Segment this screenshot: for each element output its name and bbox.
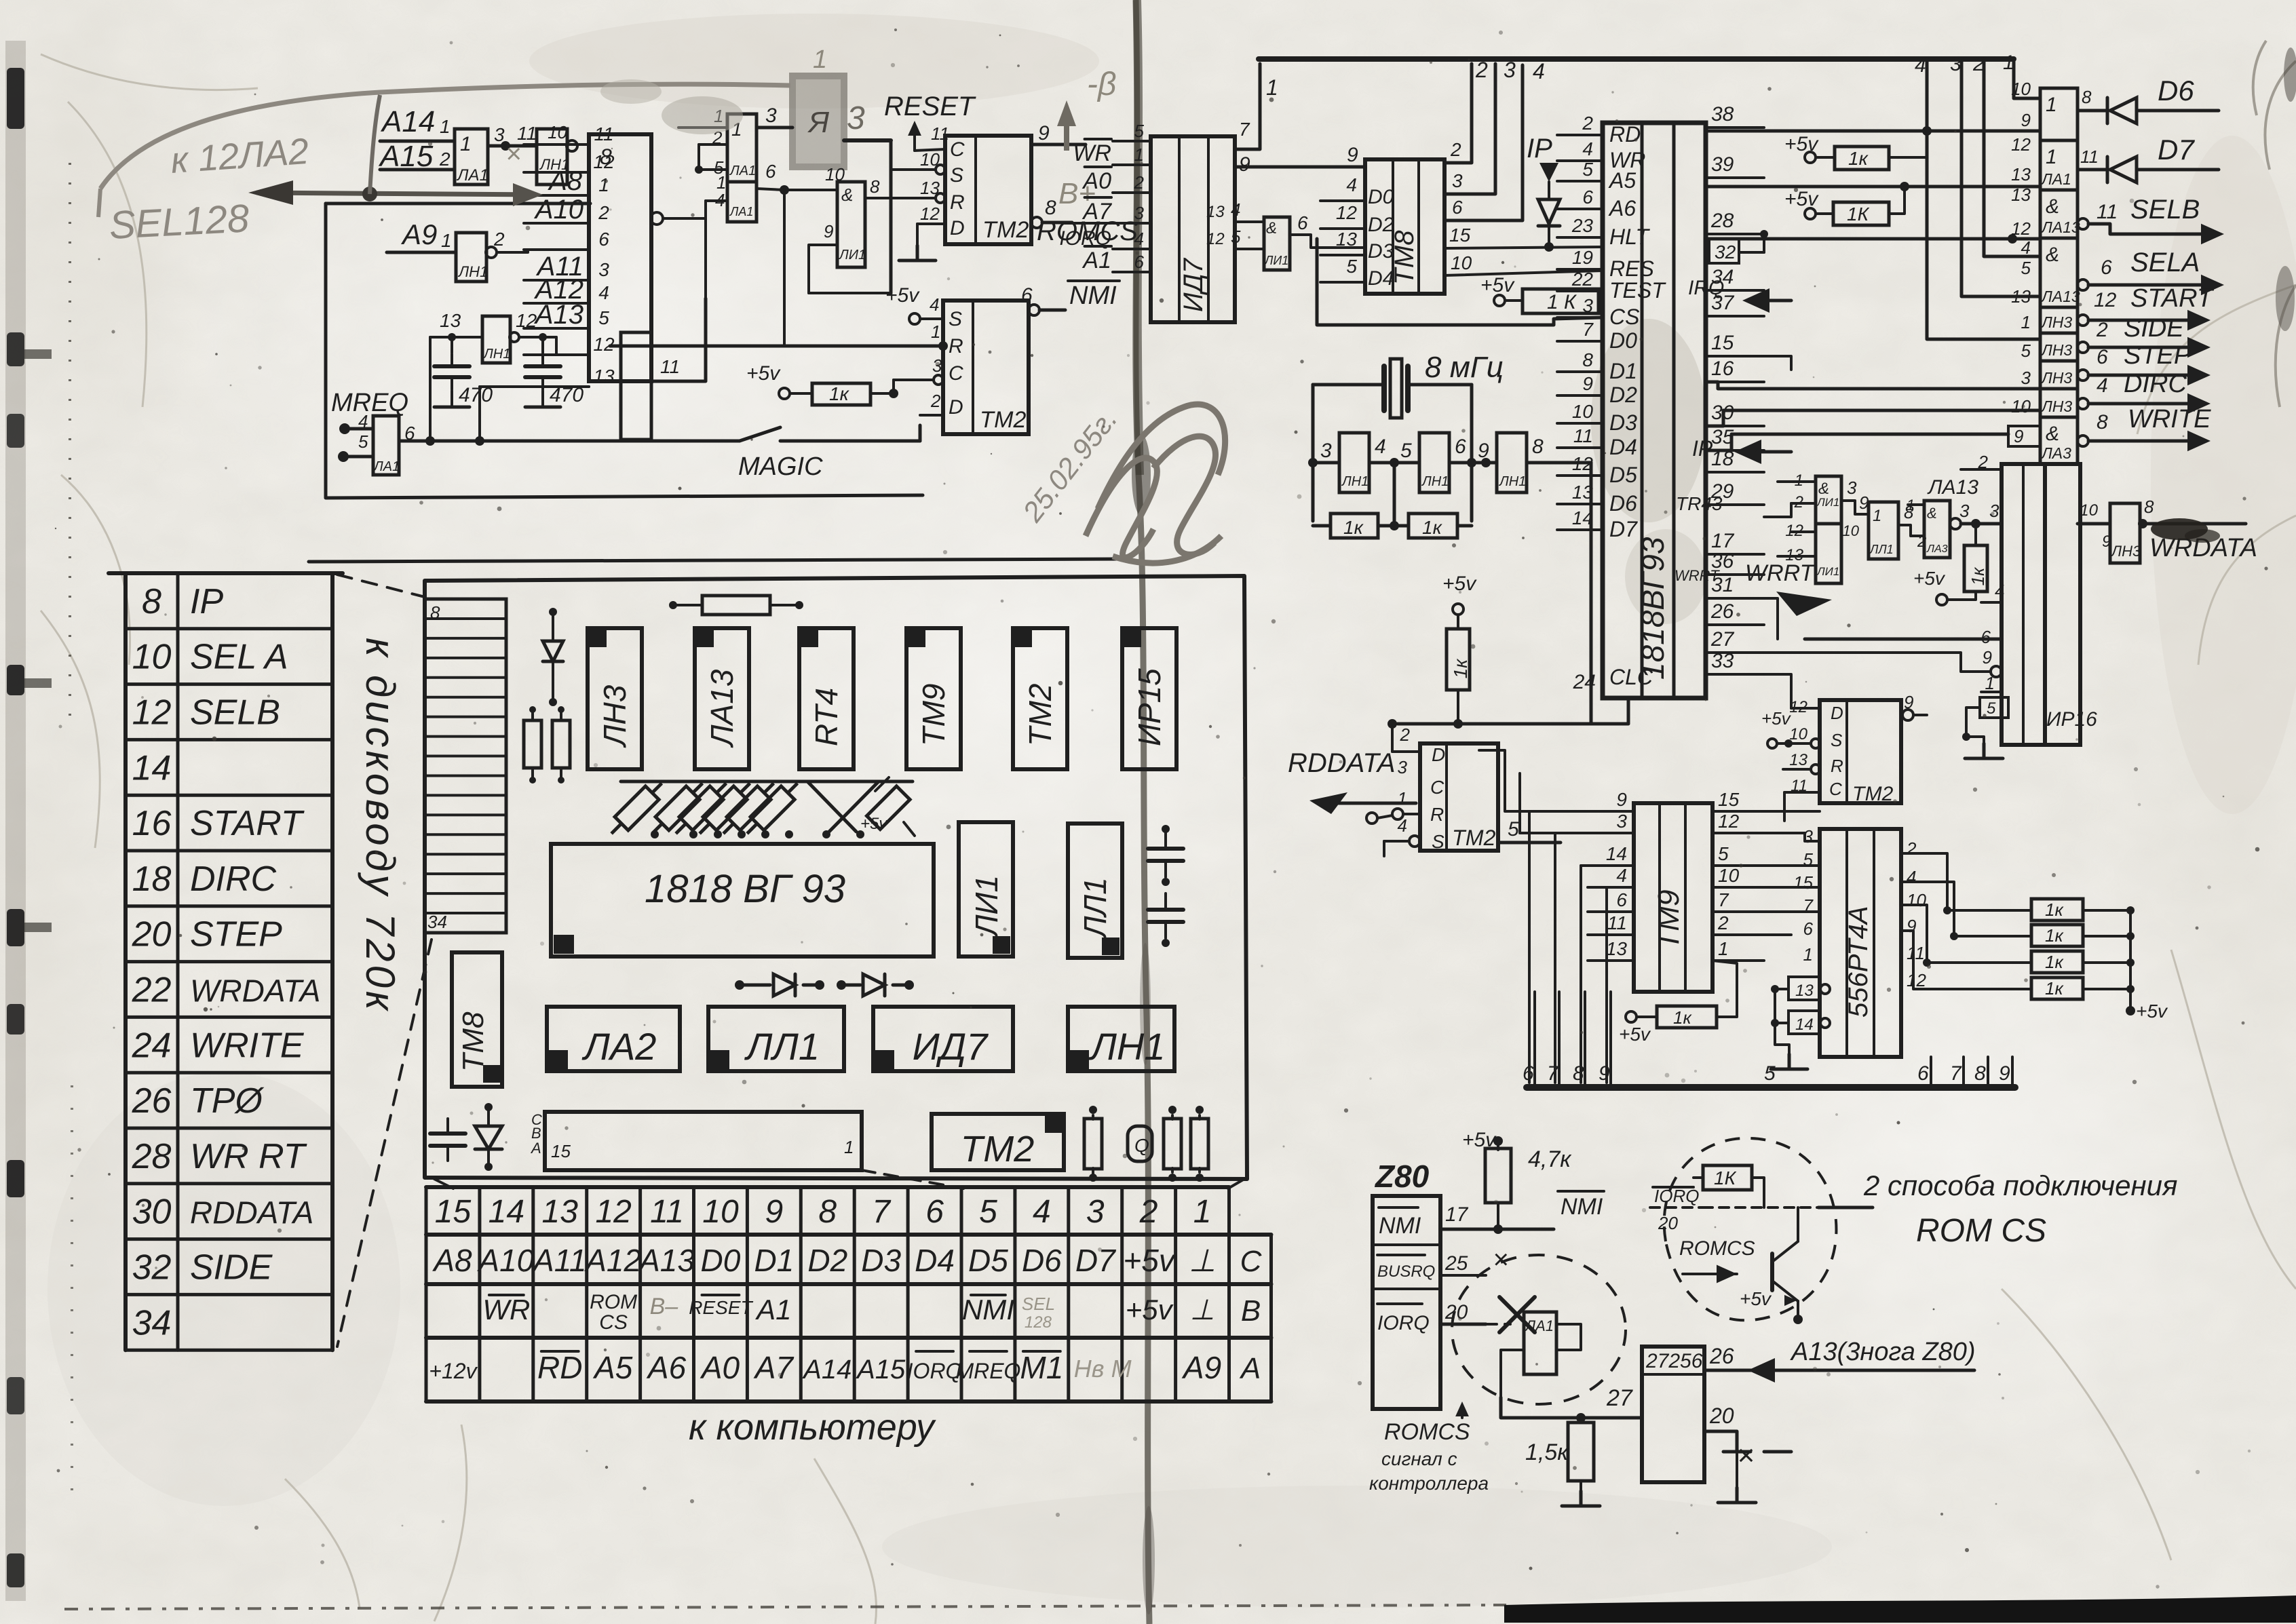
svg-text:ЛА3: ЛА3 xyxy=(2040,444,2071,462)
svg-text:A7: A7 xyxy=(753,1350,795,1385)
PROM 556RT4A xyxy=(1820,829,1901,1057)
NMI TM2 flip-flop xyxy=(943,301,1029,434)
svg-text:13: 13 xyxy=(1336,229,1358,250)
svg-text:1к: 1к xyxy=(1422,517,1443,538)
boxed 32 pin xyxy=(1709,239,1739,263)
PCB chip row 1 xyxy=(588,628,642,769)
svg-text:ЛН1: ЛН1 xyxy=(1341,474,1369,489)
svg-text:14: 14 xyxy=(1795,1016,1814,1034)
wires VG93 right pins wrap to IR16 xyxy=(1764,356,1791,370)
svg-text:4: 4 xyxy=(598,282,609,303)
svg-text:2: 2 xyxy=(1134,172,1145,193)
PCB chip TM2 row2 xyxy=(932,1114,1064,1170)
svg-text:1: 1 xyxy=(1873,507,1881,525)
svg-text:A0: A0 xyxy=(700,1350,740,1385)
svg-text:ЛИ1: ЛИ1 xyxy=(838,248,866,263)
svg-text:TR43: TR43 xyxy=(1676,493,1723,514)
svg-text:9: 9 xyxy=(1347,144,1358,166)
svg-text:A10: A10 xyxy=(476,1243,534,1278)
svg-text:8: 8 xyxy=(1582,349,1593,370)
PCB edge connector strip xyxy=(425,599,506,933)
svg-text:Q: Q xyxy=(1134,1135,1149,1156)
svg-text:ТМ2: ТМ2 xyxy=(1452,826,1496,850)
PCB bottom-left capacitor and diode xyxy=(430,1132,465,1136)
svg-text:+5v: +5v xyxy=(1480,274,1515,296)
svg-text:NMI: NMI xyxy=(962,1294,1014,1326)
svg-text:11: 11 xyxy=(1907,943,1925,963)
svg-text:6: 6 xyxy=(1616,889,1627,910)
svg-text:A6: A6 xyxy=(1608,196,1636,220)
svg-text:1К: 1К xyxy=(1714,1167,1737,1188)
output DIRC xyxy=(2078,398,2088,409)
svg-text:WRITE: WRITE xyxy=(2128,405,2211,433)
svg-text:1к: 1к xyxy=(2045,900,2064,920)
svg-text:D2: D2 xyxy=(1368,214,1394,236)
svg-text:33: 33 xyxy=(1711,650,1734,672)
svg-text:4: 4 xyxy=(930,294,939,315)
svg-text:11: 11 xyxy=(1607,912,1627,933)
svg-text:ТМ2: ТМ2 xyxy=(1022,683,1058,746)
svg-text:8 мГц: 8 мГц xyxy=(1425,351,1504,384)
IRQ arrow xyxy=(1742,288,1769,313)
svg-text:6: 6 xyxy=(1452,197,1463,218)
svg-text:6: 6 xyxy=(1803,919,1814,939)
svg-text:ЛА13: ЛА13 xyxy=(1927,476,1978,499)
chip TM8 xyxy=(1365,159,1444,294)
svg-text:A13(3нога Z80): A13(3нога Z80) xyxy=(1790,1338,1976,1366)
svg-text:ROMCS: ROMCS xyxy=(1679,1237,1755,1260)
svg-text:ЛА1: ЛА1 xyxy=(729,163,756,178)
svg-text:1,5к: 1,5к xyxy=(1525,1439,1569,1465)
svg-text:12: 12 xyxy=(1907,970,1926,990)
svg-text:CLC: CLC xyxy=(1609,665,1653,689)
svg-text:STEP: STEP xyxy=(190,915,282,954)
svg-text:15: 15 xyxy=(1718,789,1740,810)
svg-text:10: 10 xyxy=(548,122,567,142)
svg-text:Я: Я xyxy=(807,106,830,139)
svg-text:27256: 27256 xyxy=(1645,1350,1703,1372)
svg-text:D5: D5 xyxy=(1609,463,1637,487)
PCB chip row 2 xyxy=(547,1007,680,1071)
svg-text:ЛН1: ЛН1 xyxy=(1498,474,1526,489)
bottom thick bus xyxy=(1527,1084,2015,1091)
gate LN3 -> WRDATA xyxy=(2110,503,2140,563)
smudged pencil square xyxy=(792,76,844,167)
vertical bus wires 1-4 from top line xyxy=(1927,59,2040,339)
svg-text:ТМ9: ТМ9 xyxy=(1652,890,1685,950)
svg-text:ЛА13: ЛА13 xyxy=(2040,288,2080,305)
svg-text:1к: 1к xyxy=(2045,952,2064,972)
svg-text:IORQ: IORQ xyxy=(907,1359,963,1383)
svg-text:6: 6 xyxy=(2097,346,2108,368)
svg-text:⊥: ⊥ xyxy=(1190,1294,1215,1326)
svg-text:8: 8 xyxy=(142,582,161,621)
svg-text:8: 8 xyxy=(1532,436,1544,458)
svg-text:15: 15 xyxy=(551,1141,571,1161)
svg-text:34: 34 xyxy=(427,912,447,932)
svg-text:3: 3 xyxy=(1616,811,1627,832)
svg-text:к компьютеру: к компьютеру xyxy=(689,1407,936,1448)
pencil signature xyxy=(1086,404,1225,563)
svg-text:A: A xyxy=(1239,1352,1261,1385)
svg-text:9: 9 xyxy=(1904,692,1913,712)
svg-text:A15: A15 xyxy=(856,1355,906,1385)
svg-text:12: 12 xyxy=(920,204,940,224)
svg-text:ЛИ1: ЛИ1 xyxy=(1816,496,1839,509)
svg-text:13: 13 xyxy=(1606,938,1628,959)
svg-text:10: 10 xyxy=(132,638,172,677)
svg-text:5: 5 xyxy=(1231,227,1241,247)
svg-text:SEL128: SEL128 xyxy=(108,196,250,248)
svg-text:3: 3 xyxy=(1504,58,1516,82)
svg-text:+5v: +5v xyxy=(746,362,781,385)
svg-text:13: 13 xyxy=(440,310,461,331)
PCB resistor right of array xyxy=(866,786,910,830)
svg-text:8: 8 xyxy=(2097,411,2108,433)
svg-text:6: 6 xyxy=(1455,436,1466,458)
svg-text:11: 11 xyxy=(594,123,613,144)
svg-text:12: 12 xyxy=(2011,134,2031,155)
svg-text:12: 12 xyxy=(1206,230,1225,248)
svg-text:12: 12 xyxy=(1572,453,1594,474)
svg-text:3: 3 xyxy=(1452,170,1463,191)
PCB chips LI1 LL1 xyxy=(959,822,1013,956)
CLC wire xyxy=(1590,463,1593,724)
1k resistors output pullups xyxy=(2031,899,2083,921)
svg-text:9: 9 xyxy=(1038,122,1050,144)
svg-text:13: 13 xyxy=(593,366,615,387)
TM2 flip-flop (above TM9) xyxy=(1820,700,1901,803)
svg-text:C: C xyxy=(1430,777,1444,798)
TM2 flip-flop (ROMCS) xyxy=(945,136,1031,244)
svg-text:⊥: ⊥ xyxy=(1189,1243,1216,1278)
svg-text:SIDE: SIDE xyxy=(190,1248,273,1287)
svg-text:7: 7 xyxy=(1803,895,1814,916)
svg-text:15: 15 xyxy=(435,1194,472,1230)
svg-text:ЛИ1: ЛИ1 xyxy=(969,875,1004,938)
svg-text:13: 13 xyxy=(1572,482,1594,503)
svg-text:6: 6 xyxy=(404,423,415,444)
svg-text:A14: A14 xyxy=(380,105,435,138)
svg-text:13: 13 xyxy=(1206,203,1225,221)
svg-text:A9: A9 xyxy=(1181,1350,1221,1385)
floppy connector pin table xyxy=(109,571,343,575)
svg-text:A9: A9 xyxy=(400,218,437,250)
svg-text:12: 12 xyxy=(593,151,615,172)
CS wire from LI1 xyxy=(1317,239,1603,325)
svg-text:3: 3 xyxy=(1582,295,1593,316)
svg-text:10: 10 xyxy=(2011,396,2031,417)
svg-text:WR: WR xyxy=(482,1294,530,1326)
svg-text:6: 6 xyxy=(1021,284,1033,307)
svg-text:&: & xyxy=(2046,244,2059,266)
svg-text:B–: B– xyxy=(650,1294,679,1319)
svg-text:ИД7: ИД7 xyxy=(913,1025,989,1068)
center fold crease xyxy=(1136,0,1149,1624)
svg-text:ЛН1: ЛН1 xyxy=(457,263,488,280)
svg-text:+5v: +5v xyxy=(2136,1001,2168,1022)
svg-text:SEL: SEL xyxy=(1022,1294,1055,1314)
svg-text:4: 4 xyxy=(1582,138,1593,159)
svg-text:10: 10 xyxy=(1718,865,1740,886)
svg-text:+5v: +5v xyxy=(885,284,920,307)
svg-text:-β: -β xyxy=(1087,66,1116,102)
svg-text:&: & xyxy=(2046,195,2059,218)
gate LL1 xyxy=(1869,502,1898,559)
svg-text:ЛН3: ЛН3 xyxy=(2040,398,2072,415)
svg-text:7: 7 xyxy=(1547,1062,1559,1085)
svg-text:MREQ: MREQ xyxy=(955,1359,1020,1383)
svg-text:ROMCS: ROMCS xyxy=(1384,1419,1470,1445)
ROM 27256 xyxy=(1642,1347,1704,1482)
svg-text:7: 7 xyxy=(1239,119,1250,140)
svg-text:5: 5 xyxy=(598,307,609,328)
svg-text:2: 2 xyxy=(1450,139,1461,160)
svg-text:A6: A6 xyxy=(646,1350,687,1385)
svg-text:S: S xyxy=(1831,730,1843,750)
svg-text:STEP: STEP xyxy=(2124,341,2192,370)
svg-text:2: 2 xyxy=(1582,113,1593,134)
svg-text:A14: A14 xyxy=(802,1355,852,1385)
IP arrow xyxy=(1734,440,1761,464)
svg-text:11: 11 xyxy=(2097,201,2118,223)
crossed-out X xyxy=(1499,1297,1535,1332)
1k resistors osc xyxy=(1331,514,1378,538)
svg-text:7: 7 xyxy=(1582,319,1594,340)
svg-text:32: 32 xyxy=(132,1248,172,1287)
svg-text:26: 26 xyxy=(1709,1344,1734,1368)
svg-text:20: 20 xyxy=(1709,1404,1734,1428)
ground symbol below RT4A xyxy=(1788,1054,1791,1069)
svg-text:1: 1 xyxy=(440,116,451,137)
dashed link lines xyxy=(337,575,425,597)
svg-text:3: 3 xyxy=(598,259,609,280)
svg-text:+12v: +12v xyxy=(429,1359,478,1383)
svg-text:1: 1 xyxy=(931,322,940,342)
svg-text:ЛА1: ЛА1 xyxy=(456,166,489,185)
svg-text:17: 17 xyxy=(1445,1203,1469,1226)
svg-text:6: 6 xyxy=(925,1194,944,1230)
svg-text:6: 6 xyxy=(1981,627,1991,647)
1.5k resistor xyxy=(1568,1423,1594,1481)
svg-text:D2: D2 xyxy=(807,1243,847,1278)
svg-text:10: 10 xyxy=(1789,725,1807,743)
gate LI1 right of ID7 xyxy=(1264,217,1290,270)
svg-text:2: 2 xyxy=(1972,53,1985,75)
svg-text:9: 9 xyxy=(1999,1062,2010,1085)
svg-text:ЛЛ1: ЛЛ1 xyxy=(1077,877,1113,940)
svg-text:8: 8 xyxy=(430,602,440,623)
svg-text:ЛН3: ЛН3 xyxy=(597,684,632,748)
svg-text:12: 12 xyxy=(1718,811,1740,832)
PCB two small resistors xyxy=(524,720,541,768)
PCB diagonal resistor array xyxy=(605,777,913,840)
svg-text:26: 26 xyxy=(132,1081,172,1121)
svg-text:1к: 1к xyxy=(2045,978,2064,999)
svg-text:WR: WR xyxy=(1073,140,1111,166)
svg-text:ROM CS: ROM CS xyxy=(1916,1213,2046,1249)
svg-text:TEST: TEST xyxy=(1609,278,1666,303)
bottom long wire xyxy=(309,559,1130,562)
svg-text:2: 2 xyxy=(1475,58,1488,82)
svg-text:M1: M1 xyxy=(1020,1350,1063,1385)
svg-text:ТМ8: ТМ8 xyxy=(457,1011,490,1072)
svg-text:10: 10 xyxy=(1843,522,1860,539)
svg-text:22: 22 xyxy=(1571,269,1594,290)
svg-text:RD: RD xyxy=(1609,122,1641,147)
svg-text:5: 5 xyxy=(1346,256,1357,277)
svg-text:9: 9 xyxy=(2102,533,2111,551)
svg-text:6: 6 xyxy=(1917,1062,1929,1085)
svg-text:IORQ: IORQ xyxy=(1654,1186,1699,1206)
svg-text:32: 32 xyxy=(1715,241,1736,263)
right gate column boxes xyxy=(2040,88,2078,140)
svg-text:20: 20 xyxy=(1444,1301,1468,1323)
svg-text:3: 3 xyxy=(1847,478,1857,498)
svg-text:11: 11 xyxy=(1573,425,1593,446)
svg-text:7: 7 xyxy=(872,1194,892,1230)
svg-text:ЛА13: ЛА13 xyxy=(2040,218,2080,236)
svg-text:1: 1 xyxy=(2046,94,2057,116)
svg-text:S: S xyxy=(950,164,963,187)
svg-text:R: R xyxy=(949,335,963,357)
svg-text:D3: D3 xyxy=(861,1243,901,1278)
TM2 flip-flop (RDDATA) xyxy=(1420,743,1498,851)
svg-text:3: 3 xyxy=(1320,440,1332,462)
svg-text:A8: A8 xyxy=(548,166,583,196)
svg-text:&: & xyxy=(1927,505,1937,522)
svg-text:17: 17 xyxy=(1711,530,1735,552)
svg-text:A7: A7 xyxy=(1082,199,1112,225)
output START xyxy=(2078,315,2088,326)
wire mesh left of TM9 xyxy=(1528,811,1531,1083)
svg-text:12: 12 xyxy=(132,693,172,732)
svg-text:4: 4 xyxy=(1915,54,1926,77)
svg-text:+5v: +5v xyxy=(1123,1243,1176,1278)
PCB layout outline xyxy=(425,576,1247,1179)
svg-text:18: 18 xyxy=(132,859,172,899)
svg-text:ТМ2: ТМ2 xyxy=(982,217,1029,243)
8-gate inverted output bubble xyxy=(651,212,663,225)
svg-text:1к: 1к xyxy=(1848,148,1869,169)
svg-text:1 К: 1 К xyxy=(1547,291,1577,313)
R input circle xyxy=(1392,809,1403,819)
svg-text:+5v: +5v xyxy=(1619,1024,1651,1045)
svg-text:8: 8 xyxy=(870,176,880,197)
svg-text:Нв М: Нв М xyxy=(1074,1355,1132,1383)
svg-text:SIDE: SIDE xyxy=(2124,314,2184,343)
svg-text:2: 2 xyxy=(1717,912,1729,933)
svg-text:2: 2 xyxy=(1400,724,1411,745)
svg-text:6: 6 xyxy=(598,229,609,250)
svg-text:3: 3 xyxy=(1959,501,1970,521)
shift register IR16 xyxy=(2002,464,2045,745)
svg-text:ТМ2: ТМ2 xyxy=(980,407,1026,433)
svg-text:WRRT: WRRT xyxy=(1745,560,1816,586)
output SIDE xyxy=(2078,342,2088,353)
chip TM8 on PCB xyxy=(452,952,502,1087)
wire to 27256 pin 27 xyxy=(1501,1397,1642,1418)
svg-text:S: S xyxy=(949,308,962,330)
svg-text:IORQ: IORQ xyxy=(1377,1312,1430,1334)
svg-text:+5v: +5v xyxy=(1784,188,1819,210)
svg-text:+5v: +5v xyxy=(1913,568,1946,589)
svg-text:39: 39 xyxy=(1711,153,1734,176)
svg-text:9: 9 xyxy=(824,221,833,241)
small boxed 9 at LA3 input xyxy=(2008,426,2040,446)
ink blob xyxy=(2151,518,2208,540)
svg-text:10: 10 xyxy=(1572,401,1594,422)
svg-text:11: 11 xyxy=(650,1194,684,1230)
perspective lines from PCB to bottom table xyxy=(434,1179,453,1188)
svg-text:к дисководу 720к: к дисководу 720к xyxy=(358,638,403,1013)
svg-text:D6: D6 xyxy=(1022,1243,1062,1278)
transistor xyxy=(1770,1254,1774,1290)
S input xyxy=(1409,836,1420,847)
svg-text:ТМ8: ТМ8 xyxy=(1390,230,1419,285)
svg-text:D: D xyxy=(1831,703,1843,723)
boxed 5 and ground xyxy=(1980,697,2008,718)
svg-text:1: 1 xyxy=(1266,75,1278,100)
svg-text:5: 5 xyxy=(358,431,368,452)
svg-text:ЛН3: ЛН3 xyxy=(2110,543,2141,560)
pencil arrow -beta xyxy=(1064,109,1069,151)
TM9 register xyxy=(1634,803,1713,992)
PCB chip 1818VG93 xyxy=(551,844,934,956)
svg-text:SELB: SELB xyxy=(2130,195,2200,225)
svg-text:ЛИ1: ЛИ1 xyxy=(1816,565,1839,578)
svg-text:22: 22 xyxy=(132,970,172,1009)
svg-text:9: 9 xyxy=(2021,110,2031,130)
dotted fold line xyxy=(69,163,71,719)
svg-text:27: 27 xyxy=(1606,1385,1633,1411)
svg-text:1: 1 xyxy=(2021,312,2031,332)
svg-text:D: D xyxy=(950,217,965,239)
svg-text:&: & xyxy=(2046,423,2059,445)
svg-text:9: 9 xyxy=(1616,789,1627,810)
output SELA xyxy=(2078,279,2088,290)
svg-text:D0: D0 xyxy=(1609,328,1637,353)
grey smudges top xyxy=(662,96,743,134)
svg-text:16: 16 xyxy=(132,804,172,843)
wire from bus to ID7 pin1 xyxy=(1235,64,1260,149)
svg-text:2: 2 xyxy=(1139,1194,1158,1230)
svg-text:15: 15 xyxy=(1449,225,1471,246)
right edge crease marks xyxy=(2253,41,2296,407)
svg-text:ТМ2: ТМ2 xyxy=(1852,783,1894,805)
svg-text:1к: 1к xyxy=(1343,517,1364,538)
svg-text:ЛН1: ЛН1 xyxy=(1089,1025,1166,1068)
svg-text:13: 13 xyxy=(1789,751,1807,769)
svg-text:ТМ9: ТМ9 xyxy=(916,683,951,746)
svg-text:14: 14 xyxy=(1606,843,1627,864)
svg-text:556РТ4А: 556РТ4А xyxy=(1843,906,1873,1018)
svg-text:WRDATA: WRDATA xyxy=(190,973,321,1008)
svg-text:14: 14 xyxy=(489,1194,524,1230)
1k resistor below TM9 xyxy=(1626,1011,1637,1022)
svg-text:5: 5 xyxy=(1987,699,1996,718)
PCB right capacitors xyxy=(1148,847,1183,851)
svg-text:R: R xyxy=(1831,756,1843,776)
svg-text:1818 ВГ 93: 1818 ВГ 93 xyxy=(645,867,845,911)
svg-text:A13: A13 xyxy=(534,300,583,330)
svg-text:D6: D6 xyxy=(2158,75,2194,107)
svg-text:A: A xyxy=(530,1140,541,1157)
svg-text:ЛА13: ЛА13 xyxy=(704,669,740,748)
svg-text:9: 9 xyxy=(1582,373,1593,394)
wires TM9 to RT4A xyxy=(1713,810,1820,813)
svg-text:1: 1 xyxy=(813,45,827,74)
